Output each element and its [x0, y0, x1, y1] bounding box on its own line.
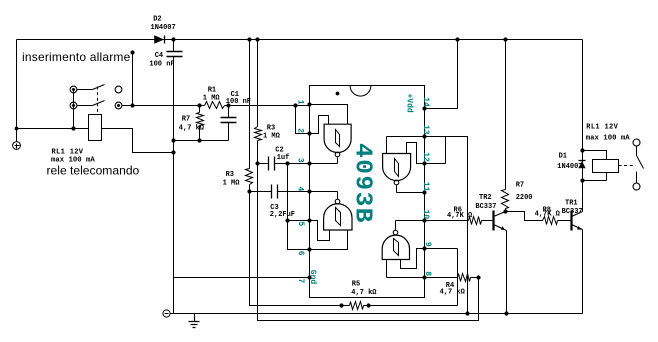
svg-text:rele telecomando: rele telecomando	[47, 164, 140, 178]
svg-text:C4: C4	[155, 52, 163, 60]
svg-text:D2: D2	[153, 15, 161, 23]
resistor R4 4,7k	[458, 274, 471, 282]
node pin 2	[307, 131, 311, 135]
node R3-upper / C2 left	[255, 161, 259, 165]
wire R7 top lead	[199, 106, 201, 113]
wire contact blade	[637, 156, 644, 169]
svg-text:11: 11	[421, 182, 430, 192]
node pin 10	[422, 218, 426, 222]
wire C1 top lead	[228, 106, 230, 118]
wire pin1 to gate1 input A	[310, 105, 348, 125]
resistor R8 4,7K	[543, 217, 558, 225]
wire R7 bottom lead	[199, 126, 201, 141]
resistor R7 2200	[502, 190, 509, 209]
wire top +12V rail	[17, 39, 583, 41]
capacitor C4 100nF	[167, 52, 183, 57]
node stub / switch wire junction	[130, 103, 134, 107]
wire left column stub to plus terminal	[16, 129, 18, 142]
wire upper contact lead	[78, 89, 93, 91]
resistor R3 1M (lower)	[246, 169, 253, 185]
svg-text:R7: R7	[182, 115, 190, 123]
wire gate3 input A from pin8 wire	[386, 260, 388, 278]
wire C1 bottom lead	[228, 123, 230, 141]
transistor TR2 BC337	[494, 211, 507, 231]
svg-text:TR2: TR2	[479, 194, 492, 202]
wire pin8 row to R4 node	[387, 277, 458, 279]
wire feedback drop pin3 to pins 5-6	[288, 164, 310, 250]
wire contact stub	[636, 147, 638, 156]
svg-text:4093B: 4093B	[349, 143, 376, 224]
node pin 13	[422, 134, 426, 138]
wire relay right lead step	[102, 129, 174, 153]
node pin 9	[422, 246, 426, 250]
svg-text:3: 3	[295, 158, 304, 163]
svg-text:4: 4	[295, 187, 304, 192]
wire C4 top lead	[173, 40, 175, 52]
wire relay branch bottom	[583, 173, 607, 181]
wire R7-2200 column	[505, 40, 507, 190]
svg-text:1 MΩ: 1 MΩ	[203, 95, 221, 103]
wire contact lower stub	[636, 172, 638, 183]
op-amp U1 4093B IC outline	[310, 86, 425, 298]
svg-text:4,7 kΩ: 4,7 kΩ	[351, 289, 377, 297]
wire pin13 to gate4 input A	[387, 137, 425, 154]
svg-text:13: 13	[421, 125, 430, 135]
svg-text:inserimento allarme: inserimento allarme	[22, 50, 131, 64]
svg-text:4,7 kΩ: 4,7 kΩ	[440, 289, 466, 297]
wire pin5 to gate2 input A	[310, 221, 330, 241]
svg-text:14: 14	[421, 97, 430, 107]
wire TR2 collector to R8	[506, 212, 543, 221]
node TR2 collector	[503, 209, 507, 213]
svg-text:+Vdd: +Vdd	[405, 94, 414, 113]
resistor R1 1M	[205, 102, 225, 109]
svg-text:TR1: TR1	[565, 200, 578, 208]
svg-text:1 MΩ: 1 MΩ	[263, 132, 281, 140]
svg-text:R3: R3	[267, 124, 275, 132]
svg-text:100 nF: 100 nF	[226, 98, 251, 106]
wire alarm input stub	[132, 53, 134, 106]
wire R6 to TR2 base	[482, 220, 494, 222]
wire contacts column	[73, 90, 75, 129]
node R7 bottom	[197, 138, 201, 142]
node R1 left / R7 top	[197, 103, 201, 107]
diode D2 1N4007	[154, 35, 164, 43]
svg-text:9: 9	[423, 242, 432, 247]
node pin 7	[307, 275, 311, 279]
contact lower-left pole	[70, 102, 77, 109]
op-amp U1A NAND gate 1 body	[324, 124, 351, 157]
node pin 12	[422, 161, 426, 165]
wire R7/C1 return	[174, 140, 229, 142]
terminal - (negative supply input)	[163, 310, 170, 317]
svg-text:10: 10	[421, 210, 430, 220]
svg-text:2,2FuF: 2,2FuF	[270, 211, 295, 219]
node left column / relay wire junction	[15, 127, 19, 131]
wire R5 right lead to pins 8-9 column	[364, 305, 458, 307]
node pin1-pin2 tie	[293, 103, 297, 107]
svg-text:R1: R1	[208, 87, 216, 95]
wire C3 right to pin 4	[278, 191, 310, 193]
wire R8 to TR1 base	[558, 220, 572, 222]
wire C2 left lead	[258, 163, 269, 165]
node TR2 emitter / ground rail	[504, 311, 508, 315]
svg-text:2200: 2200	[516, 194, 533, 202]
svg-text:R5: R5	[352, 281, 360, 289]
wire relay left lead	[17, 128, 89, 130]
svg-text:4,7 kΩ: 4,7 kΩ	[179, 125, 205, 133]
svg-text:100 nF: 100 nF	[149, 61, 174, 69]
wire gate1 output to pin3 wire	[337, 158, 339, 164]
relay RL1 coil (right)	[593, 160, 619, 173]
capacitor C3 2,2uF	[272, 185, 278, 199]
wire C2 right to pin3 and gate1 output	[275, 163, 338, 165]
wire R1 to pin 1	[225, 105, 310, 107]
svg-text:R3: R3	[226, 171, 234, 179]
wire pin12 to gate4 input B	[407, 143, 425, 164]
node relay top / D1 anode-cathode	[580, 148, 584, 152]
wire pins13-12 to ground drop	[425, 137, 468, 314]
wire relay branch top	[583, 151, 607, 160]
node C2 right / feedback drop	[285, 161, 289, 165]
node feedback / pin5 wire	[285, 218, 289, 222]
node R3-lower / C3 junction	[247, 189, 251, 193]
svg-text:4,7K Ω: 4,7K Ω	[535, 211, 561, 219]
terminal + (positive supply input)	[13, 142, 21, 150]
svg-text:12: 12	[421, 152, 430, 162]
svg-text:6: 6	[296, 251, 305, 256]
capacitor C2 1uF	[269, 157, 275, 171]
node rail / R3-lower column	[247, 37, 251, 41]
wire TR1 emitter to ground rail	[582, 230, 584, 314]
wire switch mechanical link (dashed)	[97, 87, 99, 115]
node rail / R7-2200 column	[503, 37, 507, 41]
node rail / C4 junction	[171, 37, 175, 41]
svg-text:1N4007: 1N4007	[151, 24, 176, 32]
wire pin7 to ground spine	[174, 277, 310, 279]
node pin 6	[307, 247, 311, 251]
resistor R6 4,7K	[469, 217, 482, 225]
wire gate3 input B loop to pin9	[401, 249, 425, 269]
wire ground spine below C4	[173, 57, 175, 314]
capacitor C1 100nF	[221, 118, 237, 123]
wire gate3 output to pin10	[396, 221, 425, 231]
node contacts column / relay wire	[71, 126, 75, 130]
op-amp U1C NAND gate 3 body	[382, 230, 409, 259]
wire R4 right lead	[471, 277, 479, 279]
wire pin9 to R4-R5 column	[425, 248, 458, 250]
node R5 left lead	[339, 303, 343, 307]
wire pins13-12 tie loop	[425, 137, 446, 164]
wire R3-lower column to R5	[250, 185, 342, 306]
svg-text:RL1 12V: RL1 12V	[52, 149, 84, 157]
svg-text:BC337: BC337	[475, 203, 496, 211]
wire pin2 to gate1 input B	[310, 116, 329, 134]
node pin 11	[422, 190, 426, 194]
svg-text:1: 1	[295, 100, 304, 105]
node pin 4	[307, 189, 311, 193]
svg-text:4,7K Ω: 4,7K Ω	[447, 212, 473, 220]
node R1 right / C1 top	[226, 103, 230, 107]
transistor TR1 BC337	[572, 211, 583, 231]
resistor R7 4,7k (left)	[197, 113, 204, 126]
wire gate2 output to pin4	[310, 192, 338, 200]
ground symbol	[189, 314, 200, 328]
wire switch output to R1	[123, 105, 205, 107]
wire lower switch blade	[93, 101, 105, 106]
wire feedback to pin 5	[288, 220, 310, 222]
svg-text:5: 5	[296, 221, 305, 226]
node rail / R3-upper column	[255, 37, 259, 41]
op-amp U1D NAND gate 4 body	[383, 154, 411, 185]
node alarm input stub top	[130, 50, 134, 54]
wire upper switch blade	[93, 85, 105, 90]
resistor R5 4,7k	[350, 302, 364, 310]
wire pin6 to gate2 input B	[310, 231, 348, 250]
wire pin10 to R6	[425, 220, 469, 222]
resistor R3 1M (upper)	[255, 127, 262, 141]
wire R5 left lead	[342, 305, 350, 307]
wire R7 bottom to TR2 collector	[505, 209, 507, 212]
wire R3-upper column lower part	[258, 164, 479, 321]
svg-text:1uf: 1uf	[277, 154, 290, 162]
node spine / R7-C1 return junction	[171, 138, 175, 142]
wire R3-lower column upper	[249, 40, 251, 169]
IC notch	[350, 86, 371, 96]
contact output lower (open)	[633, 183, 640, 190]
relay RL1 coil (left)	[89, 115, 102, 141]
node relay bottom	[580, 178, 584, 182]
contact lower-right (closed pole)	[115, 102, 122, 109]
wire pin1-pin2 tie	[296, 106, 310, 134]
wire C3 left lead	[250, 191, 272, 193]
svg-text:2: 2	[295, 128, 304, 133]
wire R3-upper to C2 node	[257, 141, 259, 164]
wire ground rail	[171, 313, 583, 315]
svg-text:R7: R7	[516, 182, 524, 190]
contact upper-right (open)	[115, 86, 122, 93]
svg-text:D1: D1	[559, 152, 567, 160]
op-amp U1B NAND gate 2 body	[324, 199, 352, 230]
wire pin14 to +V rail	[425, 40, 458, 109]
wire TR1 collector column	[582, 40, 584, 212]
node rail / pin14 riser	[455, 37, 459, 41]
wire relay contact link (dashed)	[619, 165, 636, 167]
svg-text:7: 7	[296, 278, 305, 283]
svg-text:8: 8	[423, 271, 432, 276]
node spine / relay return junction	[171, 150, 175, 154]
wire pin9 column down to R5	[457, 249, 459, 306]
svg-text:max 100 mA: max 100 mA	[586, 134, 630, 142]
svg-text:1N4007: 1N4007	[557, 163, 582, 171]
wire R3-upper column	[257, 40, 259, 127]
node pin 1	[307, 102, 311, 106]
node pin 8	[422, 275, 426, 279]
wire lower contact lead	[78, 105, 93, 107]
node R5 right lead	[366, 303, 370, 307]
wire TR2 emitter to ground	[506, 231, 508, 314]
node pin 14	[422, 106, 426, 110]
node R4 right	[476, 275, 480, 279]
wire gate4 output to pin11	[397, 186, 425, 193]
node pin 5	[307, 218, 311, 222]
node 13-12 drop / ground rail	[465, 311, 469, 315]
svg-text:1 MΩ: 1 MΩ	[223, 179, 241, 187]
svg-text:RL1 12V: RL1 12V	[586, 124, 618, 132]
contact upper-left (NC pole)	[70, 86, 77, 93]
svg-text:BC337: BC337	[562, 208, 583, 216]
IC pin-1 marker dot	[336, 92, 340, 96]
contact output upper (open)	[633, 139, 640, 146]
node pin 3	[307, 161, 311, 165]
diode D1 1N4007	[578, 161, 585, 169]
wire left supply column	[16, 40, 18, 129]
